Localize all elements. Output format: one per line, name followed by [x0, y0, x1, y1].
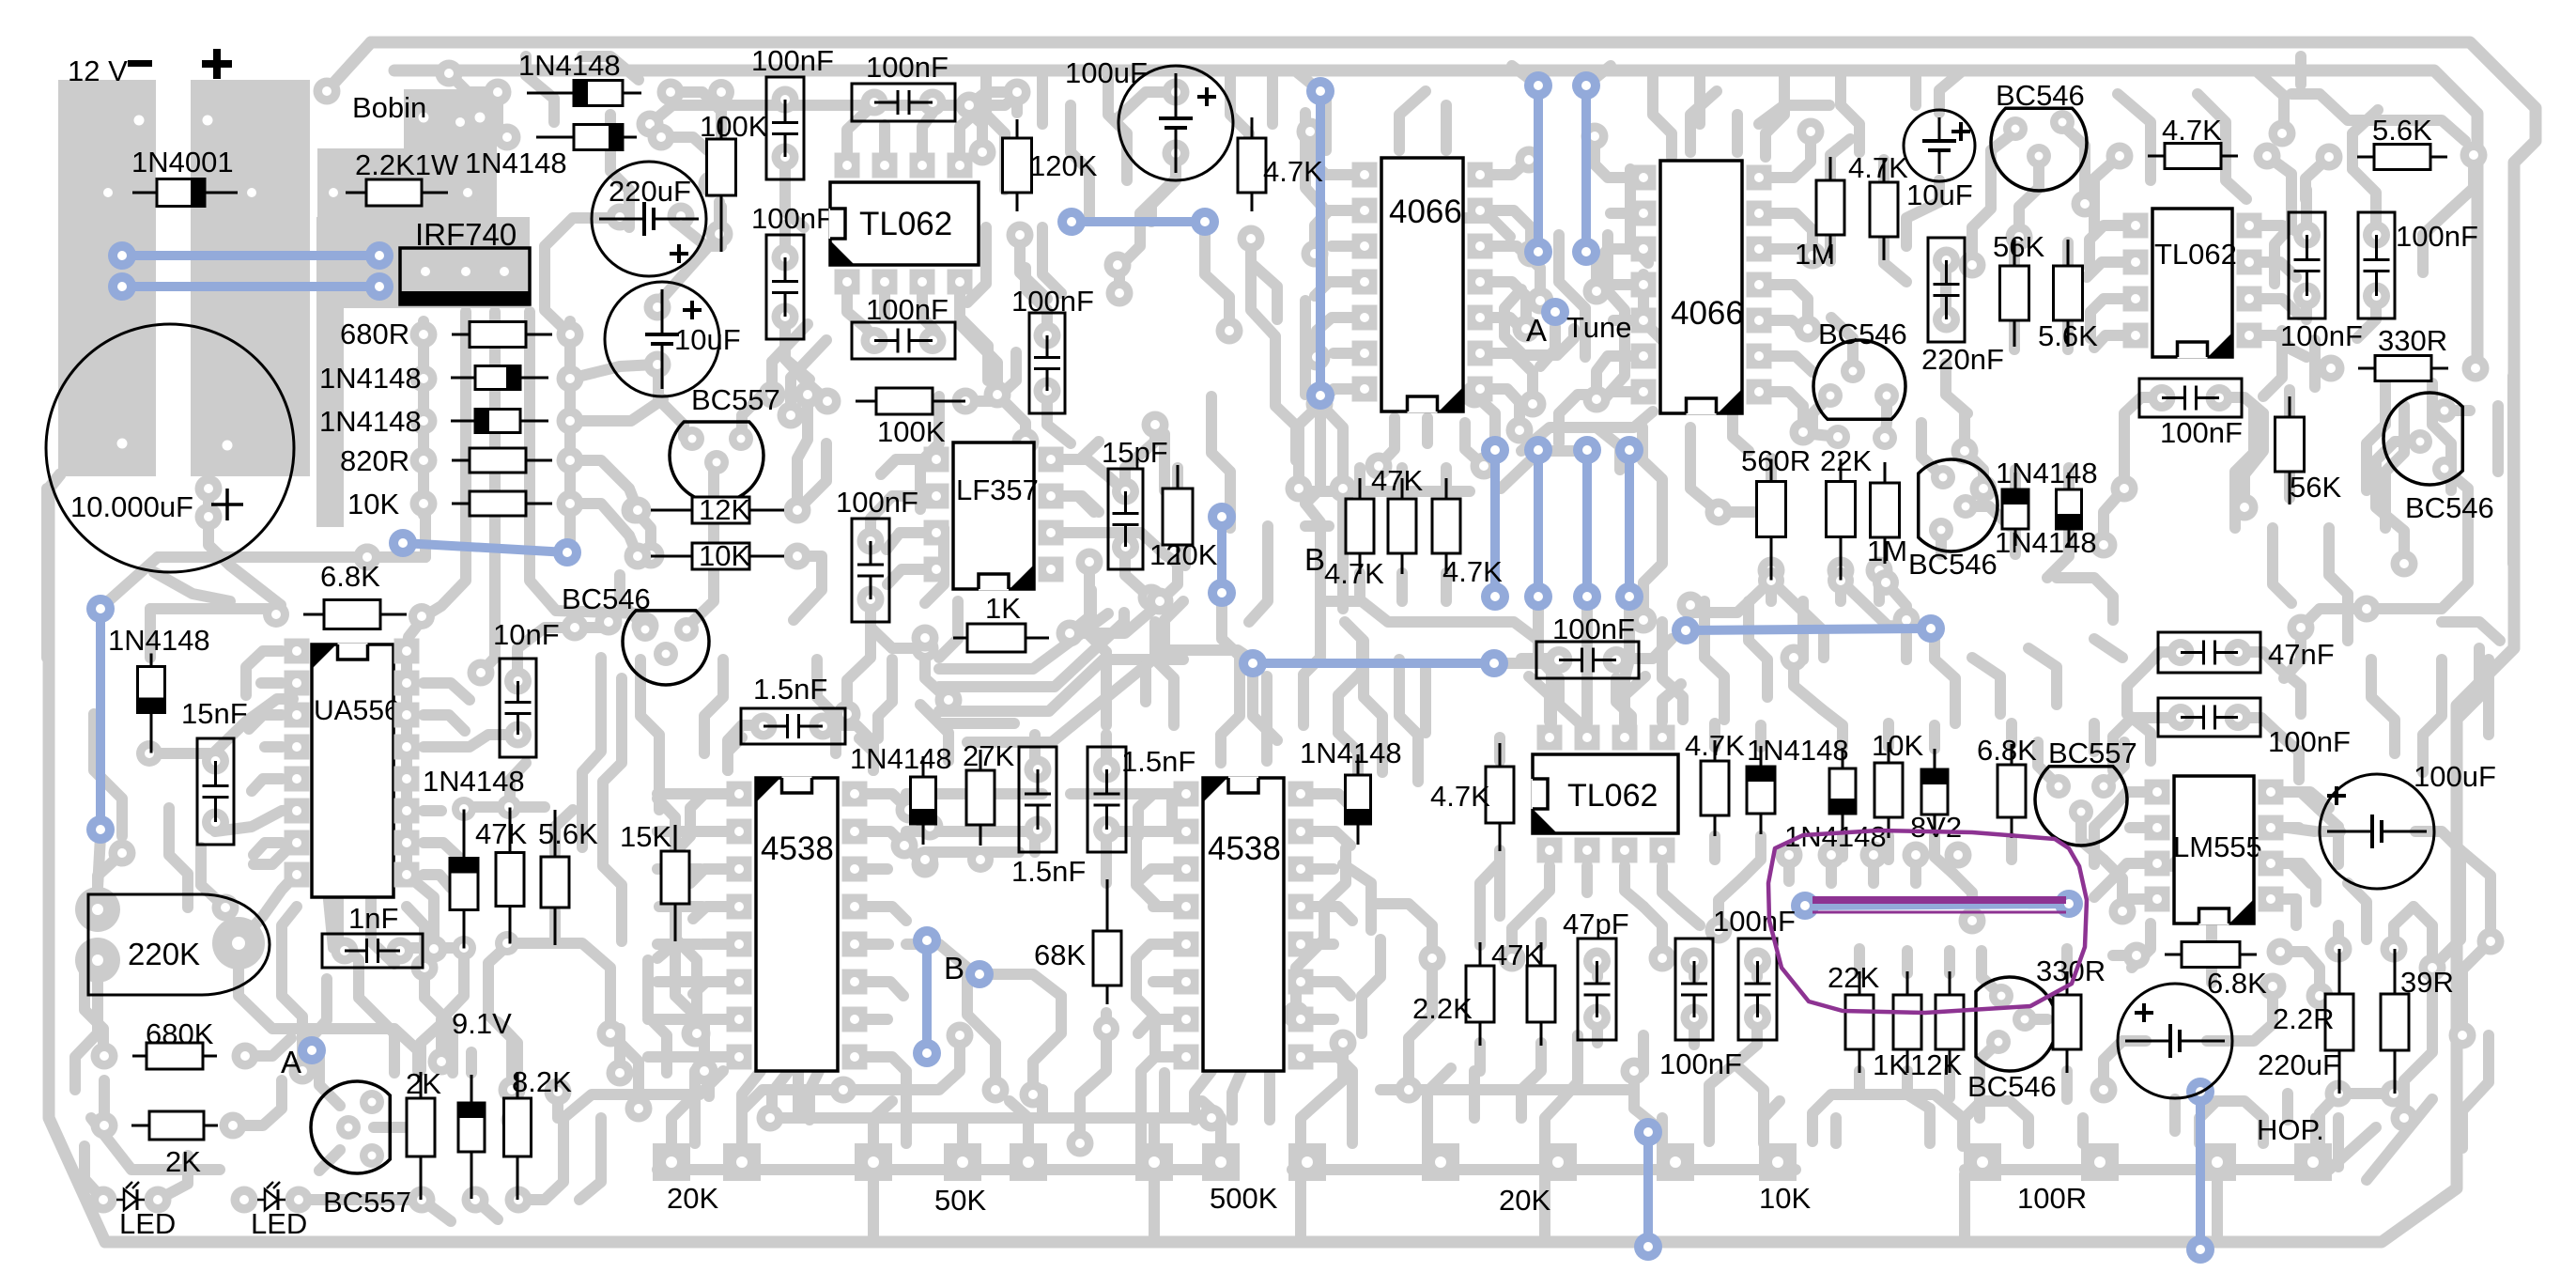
- wire: [661, 137, 712, 184]
- svg-text:1M: 1M: [1867, 535, 1907, 567]
- jumper wire: [403, 543, 567, 552]
- svg-text:680R: 680R: [340, 318, 409, 350]
- svg-text:100nF: 100nF: [866, 293, 949, 326]
- node B: [965, 960, 994, 988]
- wire: [2216, 1101, 2263, 1143]
- diode 1N4148: [138, 654, 165, 753]
- wire: [1737, 1066, 1764, 1118]
- wire: [1512, 66, 1538, 85]
- wire: [367, 551, 425, 563]
- diode 1N4148: [450, 810, 478, 949]
- wire: [2320, 826, 2340, 837]
- svg-text:4.7K: 4.7K: [1442, 555, 1503, 588]
- pad junction: [109, 840, 136, 867]
- wire: [657, 1071, 723, 1094]
- jumper wire: [96, 609, 105, 830]
- wire: [1929, 725, 1940, 749]
- wire: [319, 1052, 340, 1106]
- wire: [736, 1118, 748, 1143]
- resistor 56K: [2275, 396, 2305, 504]
- svg-text:1.5nF: 1.5nF: [753, 673, 827, 706]
- copper pour under IRF740: [316, 217, 530, 308]
- wire: [2025, 1014, 2047, 1025]
- wire: [252, 779, 282, 791]
- wire: [169, 808, 188, 908]
- wire: [449, 73, 498, 92]
- wire: [939, 718, 1014, 729]
- svg-text:1N4148: 1N4148: [319, 405, 422, 438]
- wire: [2113, 792, 2150, 808]
- wire: [1303, 609, 1320, 725]
- wire: [2062, 242, 2074, 265]
- wire: [1559, 678, 1578, 722]
- wire: [1232, 1071, 1242, 1120]
- resistor 39R: [2381, 949, 2409, 1094]
- svg-text:4.7K: 4.7K: [1263, 155, 1323, 188]
- wire: [1944, 951, 1955, 973]
- wire: [245, 1038, 291, 1056]
- wire: [2113, 863, 2150, 878]
- pad: [410, 447, 438, 474]
- wire: [1138, 794, 1174, 836]
- wire: [579, 1146, 601, 1200]
- wire: [582, 56, 639, 80]
- resistor 5.6K: [2357, 145, 2447, 170]
- capacitor 100nF: [1738, 939, 1777, 1040]
- wire: [1492, 353, 1533, 404]
- wire: [909, 810, 930, 827]
- wire: [2414, 907, 2432, 968]
- wire: [2352, 110, 2378, 169]
- wire: [1042, 227, 1061, 293]
- capacitor 47pF: [1578, 939, 1616, 1040]
- pad junction: [1959, 252, 1986, 279]
- pad junction: [757, 1105, 784, 1132]
- wire: [887, 569, 924, 584]
- wire: [2238, 718, 2277, 733]
- wire: [965, 352, 1016, 401]
- wire: [1936, 530, 1947, 554]
- wire: [1313, 794, 1354, 810]
- resistor 27K: [966, 750, 995, 846]
- wire: [1972, 658, 2000, 714]
- pad connector: [1759, 1143, 1797, 1181]
- wire: [742, 1090, 843, 1143]
- wire: [2445, 469, 2468, 526]
- wire: [1630, 169, 1648, 263]
- wire: [2367, 1099, 2432, 1180]
- wire: [1516, 1090, 1527, 1118]
- pad: [410, 490, 438, 518]
- jumper wire: [1534, 85, 1543, 252]
- capacitor 15nF: [197, 738, 234, 845]
- svg-text:47pF: 47pF: [1563, 908, 1629, 940]
- svg-text:Bobin: Bobin: [352, 91, 426, 124]
- wire: [1825, 237, 1836, 261]
- resistor 4.7K: [1238, 117, 1266, 211]
- capacitor 100nF: [1675, 939, 1713, 1040]
- wire: [791, 340, 826, 415]
- wire: [867, 794, 909, 810]
- jumper wire: [2196, 1092, 2205, 1249]
- wire: [1771, 213, 1812, 256]
- wire: [1151, 153, 1176, 222]
- wire: [371, 900, 394, 964]
- wire: [1841, 70, 1859, 152]
- wire: [1742, 836, 1761, 878]
- wire: [1222, 597, 1240, 656]
- wire: [2094, 335, 2123, 348]
- IC 4066 U7: [1381, 158, 1463, 413]
- wire: [847, 622, 871, 714]
- capacitor 15pF: [1108, 469, 1143, 569]
- pad junction: [912, 851, 939, 878]
- wire: [1469, 1071, 1480, 1118]
- resistor 47K: [1432, 478, 1460, 574]
- wire: [1313, 1057, 1352, 1099]
- pad junction: [1970, 475, 1998, 503]
- wire: [906, 826, 1033, 837]
- wire: [2442, 622, 2500, 641]
- transistor BC546 Q4: [1813, 340, 1905, 419]
- wire: [1681, 909, 1700, 925]
- wire: [1399, 660, 1418, 782]
- wire: [2006, 723, 2017, 744]
- wire: [906, 788, 1042, 799]
- wire: [1310, 132, 1352, 175]
- wire: [1902, 951, 1913, 973]
- wire: [239, 876, 295, 943]
- transistor BC546 Q4b: [1919, 459, 1998, 551]
- svg-text:8.2K: 8.2K: [512, 1065, 572, 1098]
- pad connector: [1010, 1143, 1047, 1181]
- svg-text:1K: 1K: [985, 592, 1021, 625]
- svg-text:8V2: 8V2: [1910, 811, 1962, 844]
- capacitor 1nF: [322, 934, 423, 968]
- diode 1N4148: [1747, 746, 1775, 834]
- wire: [728, 725, 765, 770]
- pad junction: [1286, 475, 1313, 503]
- wire: [319, 1150, 340, 1171]
- svg-text:1N4148: 1N4148: [465, 147, 567, 179]
- pad junction: [2006, 224, 2033, 251]
- wire: [1874, 564, 1885, 601]
- pad junction: [1471, 453, 1498, 480]
- wire: [98, 853, 122, 909]
- wire: [1324, 848, 1346, 904]
- wire: [203, 489, 214, 517]
- wire: [859, 738, 873, 770]
- pad connector: [1202, 1143, 1240, 1181]
- capacitor 100uF: [2320, 774, 2434, 889]
- wire: [2404, 120, 2465, 141]
- wire: [1249, 526, 1268, 622]
- wire: [2089, 202, 2100, 235]
- wire: [552, 1092, 563, 1118]
- pad junction: [699, 171, 726, 198]
- wire: [1070, 597, 1151, 633]
- wire: [555, 943, 639, 1109]
- svg-text:4.7K: 4.7K: [1430, 780, 1490, 813]
- pad junction: [759, 381, 786, 409]
- pad connector: [2294, 1143, 2332, 1181]
- wire: [657, 207, 721, 310]
- pad junction: [1461, 381, 1489, 409]
- pad junction: [947, 1022, 974, 1049]
- pad junction: [982, 1077, 1010, 1104]
- svg-text:22K: 22K: [1828, 961, 1879, 994]
- wire: [2376, 442, 2420, 460]
- wire: [1886, 582, 1906, 641]
- resistor 4.7K: [1701, 740, 1729, 836]
- hole: [223, 441, 233, 451]
- wire: [1719, 878, 1742, 930]
- wire: [1317, 318, 1352, 357]
- wire: [2199, 1101, 2216, 1143]
- wire: [1771, 392, 1803, 432]
- wire: [1878, 160, 1890, 180]
- wire: [1399, 91, 1426, 150]
- svg-text:500K: 500K: [1210, 1182, 1278, 1215]
- pad junction: [1799, 242, 1827, 270]
- wire: [2130, 893, 2150, 905]
- pad junction: [195, 475, 223, 503]
- wire: [967, 968, 995, 1090]
- wire: [1694, 70, 1705, 124]
- wire: [518, 1146, 563, 1200]
- wire: [1205, 231, 1229, 331]
- capacitor 100nF: [852, 84, 955, 121]
- svg-text:2.2K: 2.2K: [1412, 992, 1473, 1025]
- wire: [871, 496, 924, 541]
- svg-text:BC546: BC546: [1818, 318, 1907, 350]
- wire: [969, 92, 1017, 105]
- wire: [1690, 91, 1717, 152]
- wire: [939, 613, 1124, 687]
- wire: [980, 846, 1019, 858]
- svg-text:100K: 100K: [700, 110, 768, 143]
- wire: [1101, 1013, 1112, 1043]
- pad junction: [912, 635, 939, 662]
- wire: [1888, 1094, 1963, 1146]
- wire: [1465, 423, 1484, 466]
- wire: [41, 489, 53, 658]
- wire: [1965, 413, 1983, 489]
- wire: [793, 1073, 804, 1118]
- resistor 2.2K1W: [346, 179, 448, 206]
- wire: [2057, 578, 2113, 620]
- wire: [2301, 190, 2312, 235]
- wire: [1089, 562, 1106, 652]
- capacitor 100nF: [2158, 698, 2260, 737]
- wire: [2318, 808, 2338, 864]
- wire: [1653, 70, 1672, 157]
- resistor 68K: [1093, 879, 1121, 1004]
- wire: [1940, 265, 1951, 310]
- wire: [422, 1200, 451, 1221]
- pad junction: [1795, 316, 1822, 343]
- wire: [1826, 857, 1837, 883]
- resistor 2K: [407, 1072, 435, 1200]
- svg-text:15nF: 15nF: [181, 697, 248, 730]
- pad junction: [834, 701, 861, 728]
- wire: [2013, 209, 2025, 237]
- svg-text:10.000uF: 10.000uF: [70, 490, 193, 523]
- diode 1N4148: [1346, 754, 1371, 845]
- pad connector: [855, 1143, 892, 1181]
- wire: [1474, 921, 1486, 945]
- wire: [2132, 923, 2151, 968]
- wire: [1141, 1057, 1174, 1099]
- wire: [2462, 1035, 2489, 1148]
- wire: [2094, 808, 2113, 864]
- wire: [960, 294, 988, 380]
- wire: [2367, 526, 2468, 609]
- pad junction: [1365, 453, 1393, 480]
- wire: [925, 846, 980, 858]
- wire: [338, 1029, 418, 1071]
- wire: [967, 650, 1249, 742]
- svg-text:TL062: TL062: [2154, 238, 2237, 271]
- wire: [1709, 1062, 1737, 1118]
- pad junction: [830, 1077, 857, 1104]
- wire: [2077, 1118, 2089, 1143]
- wire: [2062, 319, 2074, 349]
- svg-text:220uF: 220uF: [2258, 1048, 2340, 1081]
- svg-text:22K: 22K: [1820, 444, 1872, 477]
- svg-text:100nF: 100nF: [1011, 285, 1094, 318]
- wire: [728, 737, 742, 770]
- wire: [424, 735, 517, 747]
- pad junction: [1297, 118, 1324, 146]
- capacitor 100nF: [2358, 212, 2395, 318]
- wire: [1165, 434, 1185, 566]
- wire: [1108, 826, 1174, 837]
- pad junction: [684, 1020, 711, 1047]
- wire: [1934, 180, 1945, 202]
- wire: [648, 960, 667, 1073]
- svg-text:BC546: BC546: [2405, 491, 2494, 524]
- wire: [2357, 296, 2376, 338]
- IC LF357 U3: [953, 442, 1034, 591]
- wire: [1136, 869, 1174, 883]
- capacitor 10uF: [605, 282, 719, 396]
- wire: [312, 979, 327, 1037]
- pad junction: [1330, 1030, 1357, 1057]
- svg-text:TL062: TL062: [859, 206, 952, 242]
- diode 1N4148: [911, 756, 936, 845]
- resistor 10K: [452, 491, 552, 516]
- resistor 12K: [1936, 971, 1964, 1073]
- wire: [1465, 218, 1510, 237]
- svg-text:100nF: 100nF: [2280, 319, 2363, 352]
- pad junction: [2269, 120, 2296, 147]
- svg-text:15K: 15K: [620, 820, 671, 853]
- wire: [2122, 1035, 2146, 1047]
- wire: [2206, 923, 2217, 943]
- wire: [2113, 718, 2158, 770]
- wire: [570, 365, 655, 379]
- wire: [1812, 396, 1838, 437]
- wire: [1598, 285, 1631, 299]
- svg-text:10K: 10K: [347, 488, 399, 520]
- svg-text:10uF: 10uF: [674, 323, 741, 356]
- wire: [2280, 669, 2301, 714]
- wire: [2301, 296, 2312, 319]
- pad junction: [1828, 557, 1855, 584]
- wire: [610, 115, 629, 227]
- wire: [1771, 356, 1812, 372]
- pad junction: [668, 203, 695, 230]
- transistor BC546 Q8: [1976, 977, 2057, 1071]
- wire: [1301, 1101, 1319, 1143]
- svg-text:10nF: 10nF: [493, 618, 560, 651]
- IC LM555 U11: [2174, 776, 2254, 925]
- wire: [1292, 1164, 1796, 1175]
- pad junction: [1797, 118, 1825, 146]
- pad junction: [411, 954, 439, 982]
- wire: [2104, 860, 2122, 911]
- svg-text:100K: 100K: [877, 415, 946, 448]
- svg-text:4538: 4538: [761, 830, 834, 867]
- capacitor 1.5nF: [1019, 747, 1057, 852]
- wire: [466, 1052, 477, 1073]
- wire: [1611, 208, 1631, 219]
- wire: [1935, 836, 1953, 874]
- wire: [689, 1099, 701, 1143]
- wire: [2394, 907, 2414, 949]
- wire: [1230, 70, 1249, 180]
- wire: [1662, 866, 1681, 909]
- capacitor 47nF: [2158, 632, 2260, 673]
- wire: [1101, 837, 1112, 883]
- svg-text:2.2K1W: 2.2K1W: [355, 148, 459, 181]
- wire: [1538, 602, 1551, 723]
- jumper wire: [1072, 217, 1205, 226]
- wire: [831, 725, 873, 770]
- wire: [648, 1014, 700, 1025]
- wire: [797, 395, 808, 510]
- svg-text:1N4001: 1N4001: [131, 146, 234, 178]
- svg-text:1nF: 1nF: [348, 902, 398, 935]
- transistor BC557 Q1: [670, 422, 764, 503]
- svg-text:2K: 2K: [165, 1145, 201, 1178]
- svg-text:68K: 68K: [1034, 939, 1086, 971]
- IC 4538 U5: [756, 777, 838, 1072]
- wire: [2146, 652, 2181, 667]
- wire: [2267, 156, 2291, 197]
- wire: [2291, 94, 2404, 120]
- jumper wire: [1686, 628, 1931, 630]
- wire: [1539, 1174, 1550, 1238]
- wire: [1441, 105, 1452, 150]
- jumper wire: [1217, 517, 1226, 593]
- wire: [785, 159, 804, 227]
- wire: [441, 948, 464, 1062]
- wire: [2094, 878, 2113, 897]
- pad junction: [2477, 928, 2505, 955]
- wire: [2271, 863, 2310, 883]
- wire: [407, 875, 434, 949]
- pad connector: [653, 1143, 690, 1181]
- svg-text:1N4148: 1N4148: [1996, 457, 2098, 489]
- wire: [1026, 268, 1047, 335]
- wire: [2090, 225, 2123, 268]
- capacitor 220nF: [1928, 238, 1965, 342]
- wire: [1492, 246, 1540, 301]
- wire: [2127, 714, 2151, 761]
- wire: [1494, 737, 1505, 761]
